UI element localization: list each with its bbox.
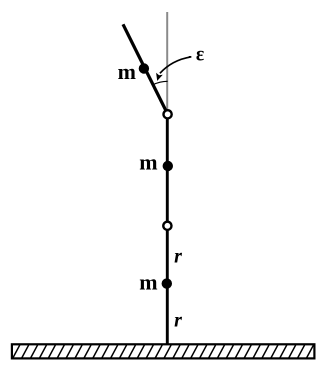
svg-text:r: r [174, 245, 182, 267]
svg-text:m: m [118, 59, 136, 84]
pivot 1 (open circle) [164, 110, 172, 118]
svg-text:r: r [174, 309, 182, 331]
angle arc epsilon [153, 81, 168, 85]
svg-text:m: m [139, 150, 157, 175]
arrowhead [156, 73, 163, 81]
svg-text:m: m [139, 270, 157, 295]
ground bar outline [12, 344, 315, 358]
mass m2 [163, 161, 173, 171]
tilted rod [123, 24, 168, 114]
svg-text:ε: ε [196, 45, 204, 66]
arrow from epsilon label to angle [160, 57, 191, 74]
mass m3 [162, 278, 172, 288]
vertical reference line (gray) [166, 12, 168, 110]
vertical rod [166, 113, 169, 345]
pivot 2 (open circle) [163, 222, 171, 230]
mass m1 on tilted rod [139, 63, 149, 73]
ground hatching [4, 345, 323, 358]
